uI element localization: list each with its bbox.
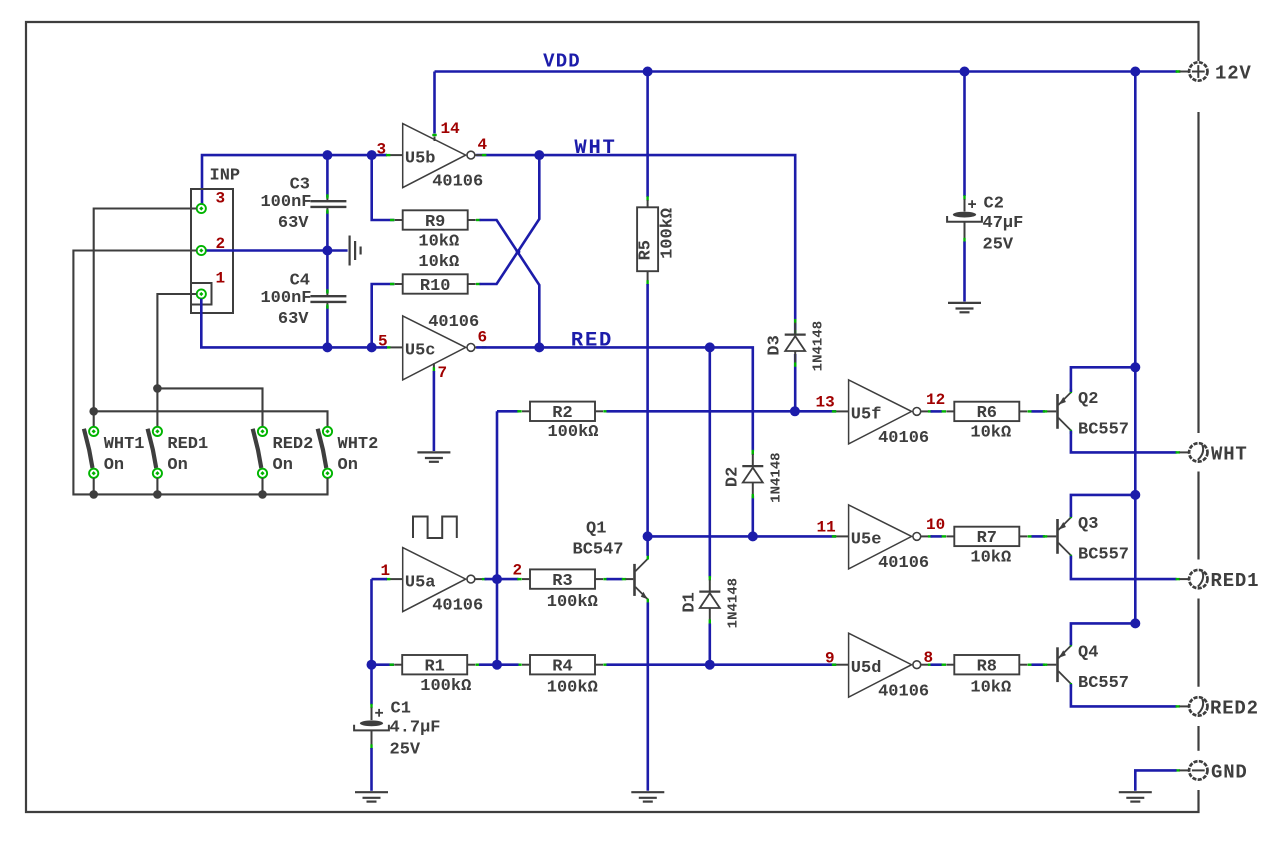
op-amp U5a inverter <box>386 548 486 616</box>
junction RED-D1 <box>705 342 715 352</box>
diode D2 <box>723 451 784 503</box>
wire net13 R2 to U5f <box>607 410 837 413</box>
svg-text:C4: C4 <box>290 272 310 291</box>
junction RED2 bottom <box>258 490 267 499</box>
svg-text:10kΩ: 10kΩ <box>970 679 1011 698</box>
svg-text:On: On <box>104 456 124 475</box>
svg-text:R2: R2 <box>552 404 572 423</box>
svg-text:100kΩ: 100kΩ <box>420 677 471 696</box>
wire RED to D1 <box>708 347 711 577</box>
wire pin3 to U5b input <box>202 155 387 203</box>
svg-text:40106: 40106 <box>432 597 483 616</box>
wire Q3 emitter to VDD rail <box>1071 495 1135 517</box>
svg-text:R8: R8 <box>977 658 997 677</box>
resistor R6 <box>942 402 1032 424</box>
wire R10 to WHT net <box>480 155 540 284</box>
wire WHT net U5b out to D3 <box>476 155 795 334</box>
pin 3 of INP <box>197 190 225 214</box>
svg-text:VDD: VDD <box>543 51 581 73</box>
switch RED2 <box>253 427 314 495</box>
svg-text:2: 2 <box>513 562 523 580</box>
svg-text:4: 4 <box>478 136 488 154</box>
svg-text:U5e: U5e <box>851 531 882 550</box>
op-amp U5d inverter <box>832 633 932 701</box>
wire D2 to net11 <box>751 496 754 537</box>
connector INP <box>191 167 240 314</box>
svg-text:RED1: RED1 <box>167 435 208 454</box>
svg-text:U5f: U5f <box>851 406 882 425</box>
wire R9 to RED net <box>480 220 540 347</box>
wire VDD rail <box>435 70 1178 73</box>
terminal RED2 <box>1176 697 1208 715</box>
wire RED net U5c out to D2 <box>476 347 753 451</box>
terminal 12V <box>1176 62 1208 80</box>
terminal RED1 <box>1176 570 1208 588</box>
wire R1 to C1 <box>370 665 373 705</box>
resistor R4 <box>517 655 607 677</box>
wire C1 to ground <box>370 748 373 791</box>
svg-text:100kΩ: 100kΩ <box>547 423 598 442</box>
junction pin3 rail <box>89 407 98 416</box>
svg-text:40106: 40106 <box>878 682 929 701</box>
wire R3 to Q1 base <box>607 578 623 581</box>
svg-text:3: 3 <box>377 141 387 159</box>
wire Q1 collector <box>646 536 649 555</box>
AC coupling ground <box>350 236 361 266</box>
svg-text:WHT2: WHT2 <box>338 435 379 454</box>
svg-text:10kΩ: 10kΩ <box>970 549 1011 568</box>
svg-text:Q4: Q4 <box>1078 643 1098 662</box>
wire U5b pin14 <box>433 72 436 134</box>
wire pin3 to WHT switches <box>94 209 197 412</box>
svg-text:25V: 25V <box>983 236 1014 255</box>
svg-text:100nF: 100nF <box>260 289 311 308</box>
svg-text:R4: R4 <box>552 658 572 677</box>
wire Q4 emitter to VDD rail <box>1071 623 1135 645</box>
svg-text:RED1: RED1 <box>1211 570 1260 592</box>
wire R4 left <box>497 663 519 666</box>
wire C4 top <box>326 251 329 293</box>
ground U5c pin7 <box>417 452 450 461</box>
svg-text:BC557: BC557 <box>1078 421 1129 440</box>
svg-text:BC557: BC557 <box>1078 674 1129 693</box>
wire to WHT1 switch <box>93 411 95 427</box>
svg-text:40106: 40106 <box>878 429 929 448</box>
junction RED-crosscouple <box>534 342 544 352</box>
diode D1 <box>680 576 741 628</box>
svg-text:On: On <box>338 456 358 475</box>
svg-text:63V: 63V <box>278 310 309 329</box>
svg-text:R7: R7 <box>977 529 997 548</box>
svg-text:RED2: RED2 <box>1210 698 1259 720</box>
wire R2 riser <box>496 411 499 664</box>
pin 1 of INP <box>197 270 225 299</box>
junction rail-Q2 <box>1130 362 1140 372</box>
svg-text:C1: C1 <box>391 700 411 719</box>
wire U5e to R7 <box>931 535 943 538</box>
svg-text:GND: GND <box>1211 762 1248 784</box>
svg-text:25V: 25V <box>390 741 421 760</box>
svg-text:R6: R6 <box>977 404 997 423</box>
ground C2 <box>948 303 981 312</box>
junction net11-Q1 collector <box>643 531 653 541</box>
wire C4 bottom <box>326 306 329 348</box>
svg-text:7: 7 <box>438 364 448 382</box>
ground GND terminal <box>1119 792 1152 801</box>
ground C1 <box>355 792 388 801</box>
wire C3 bottom <box>326 211 329 251</box>
wire pin1 to RED switches <box>157 294 196 427</box>
crossing node <box>516 249 521 254</box>
wire net11 to U5e <box>648 535 836 538</box>
svg-text:WHT: WHT <box>574 137 616 160</box>
junction net9-D1 <box>705 660 715 670</box>
junction net13-D3 <box>790 406 800 416</box>
wire Q3 collector to RED1 terminal <box>1071 556 1177 579</box>
junction net9-R1 <box>367 660 377 670</box>
svg-text:40106: 40106 <box>428 313 479 332</box>
junction WHT-C3 <box>322 150 332 160</box>
wire Q4 collector to RED2 terminal <box>1071 684 1177 706</box>
junction net11-D2 <box>748 531 758 541</box>
svg-text:4.7µF: 4.7µF <box>390 719 441 738</box>
svg-text:On: On <box>273 456 293 475</box>
transistor Q4 <box>1043 642 1129 693</box>
terminal WHT <box>1176 443 1208 461</box>
capacitor C2 <box>947 195 1023 255</box>
svg-text:U5d: U5d <box>851 659 882 678</box>
wire pin2 to AC ground <box>207 249 348 252</box>
wire VDD to C2 <box>963 72 966 197</box>
wire U5c pin7 to ground <box>433 363 435 368</box>
wire R10 riser <box>372 284 395 347</box>
resistor R7 <box>942 527 1032 549</box>
terminal GND <box>1176 761 1208 779</box>
resistor R3 <box>517 569 607 591</box>
svg-text:12: 12 <box>926 391 945 409</box>
svg-text:U5c: U5c <box>405 342 436 361</box>
wire pin2 common rail <box>73 251 327 495</box>
square wave icon <box>413 517 457 539</box>
junction pin1 rail <box>153 384 162 393</box>
junction VDD-rail <box>1130 67 1140 77</box>
wire R9 riser <box>372 155 395 220</box>
wire R1 to R4 <box>479 663 497 666</box>
wire VDD to R5 <box>646 72 649 198</box>
svg-text:R1: R1 <box>424 658 444 677</box>
wire R7 to Q3 <box>1032 535 1046 538</box>
svg-text:1N4148: 1N4148 <box>725 578 741 628</box>
resistor R2 <box>517 402 607 424</box>
wire WHT switch rail <box>94 411 328 427</box>
svg-text:100kΩ: 100kΩ <box>547 593 598 612</box>
svg-text:BC547: BC547 <box>573 541 624 560</box>
ground Q1 emitter <box>631 792 664 801</box>
svg-text:10: 10 <box>926 516 945 534</box>
svg-text:U5b: U5b <box>405 149 436 168</box>
wire D1 to net9 <box>708 624 711 665</box>
junction pin2-C3C4 <box>322 246 332 256</box>
wire U5f to R6 <box>931 410 943 413</box>
svg-text:Q1: Q1 <box>586 520 606 539</box>
wire U5d to R8 <box>931 663 943 666</box>
junction VDD-C2 <box>960 67 970 77</box>
svg-text:100nF: 100nF <box>260 193 311 212</box>
wire C2 to ground <box>963 242 966 302</box>
junction RED1 bottom <box>153 490 162 499</box>
capacitor C1 <box>354 700 440 760</box>
svg-text:63V: 63V <box>278 214 309 233</box>
op-amp U5f inverter <box>832 380 932 448</box>
svg-text:C2: C2 <box>984 195 1004 214</box>
junction WHT-R9 <box>367 150 377 160</box>
diode D3 <box>766 319 827 371</box>
resistor R8 <box>942 655 1032 677</box>
svg-text:6: 6 <box>478 329 488 347</box>
wire U5a input <box>372 578 388 581</box>
svg-text:14: 14 <box>441 120 461 138</box>
svg-text:9: 9 <box>825 650 835 668</box>
wire C3 top <box>326 155 329 197</box>
resistor R10 <box>390 274 480 296</box>
transistor Q2 <box>1043 389 1129 440</box>
wire VDD rail vertical <box>1134 72 1137 624</box>
svg-text:10kΩ: 10kΩ <box>418 253 459 272</box>
junction net9-R2R4 <box>492 660 502 670</box>
wire net9 R4 to U5d <box>607 663 837 666</box>
resistor R9 <box>390 210 480 232</box>
wire to R2 <box>497 410 519 413</box>
junction RED-R10 <box>367 342 377 352</box>
junction VDD-R5 <box>643 67 653 77</box>
svg-text:BC557: BC557 <box>1078 546 1129 565</box>
svg-text:1N4148: 1N4148 <box>811 321 827 371</box>
junction rail-Q3 <box>1130 490 1140 500</box>
transistor Q3 <box>1043 514 1129 565</box>
svg-text:100kΩ: 100kΩ <box>547 679 598 698</box>
switch RED1 <box>148 427 209 495</box>
wire D3 to net13 <box>794 354 797 411</box>
resistor R1 <box>390 655 480 677</box>
pin 2 of INP <box>197 235 225 255</box>
right border segment 12V-WHT <box>1197 112 1199 433</box>
svg-text:D2: D2 <box>723 467 742 487</box>
junction rail-Q4 <box>1130 618 1140 628</box>
wire to R1 <box>372 663 395 666</box>
svg-text:RED: RED <box>571 330 613 353</box>
svg-text:1N4148: 1N4148 <box>768 452 784 502</box>
op-amp U5b inverter <box>386 124 486 192</box>
svg-text:100kΩ: 100kΩ <box>659 208 678 259</box>
svg-text:U5a: U5a <box>405 573 436 592</box>
transistor Q1 <box>573 520 650 604</box>
svg-text:1: 1 <box>381 562 391 580</box>
svg-text:On: On <box>167 456 187 475</box>
svg-text:R5: R5 <box>637 240 656 260</box>
svg-text:Q2: Q2 <box>1078 390 1098 409</box>
svg-text:40106: 40106 <box>432 173 483 192</box>
right border segment WHT-RED1 <box>1197 472 1199 560</box>
right border segment RED1-RED2 <box>1197 599 1199 687</box>
svg-text:3: 3 <box>216 190 226 208</box>
svg-text:D3: D3 <box>766 335 785 355</box>
svg-text:RED2: RED2 <box>273 435 314 454</box>
capacitor C3 <box>260 176 346 234</box>
wire <box>433 371 436 451</box>
svg-text:Q3: Q3 <box>1078 515 1098 534</box>
svg-text:WHT1: WHT1 <box>104 435 145 454</box>
svg-text:11: 11 <box>817 519 836 537</box>
svg-text:WHT: WHT <box>1211 444 1248 466</box>
junction WHT1 bottom <box>89 490 98 499</box>
switch WHT2 <box>318 427 379 495</box>
svg-text:47µF: 47µF <box>983 214 1024 233</box>
wire RED switch rail <box>157 388 262 427</box>
svg-text:10kΩ: 10kΩ <box>970 424 1011 443</box>
svg-text:R10: R10 <box>420 277 451 296</box>
svg-text:C3: C3 <box>290 176 310 195</box>
op-amp U5c inverter <box>386 313 486 380</box>
junction U5a out-R2 <box>492 574 502 584</box>
wire Q1 emitter to ground <box>646 602 649 790</box>
right border segment RED2-GND <box>1197 726 1199 751</box>
resistor R5 <box>637 207 678 271</box>
svg-text:1: 1 <box>216 270 226 288</box>
wire Q2 collector to WHT terminal <box>1071 431 1177 453</box>
svg-text:INP: INP <box>210 167 241 186</box>
wire U5a out to R3 <box>485 578 519 581</box>
wire R5 to Q1 collector node <box>646 284 649 536</box>
wire R8 to Q4 <box>1032 663 1046 666</box>
junction WHT-crosscouple <box>534 150 544 160</box>
svg-text:R3: R3 <box>552 572 572 591</box>
junction RED-C4 <box>322 342 332 352</box>
wire Q2 emitter to VDD rail <box>1071 367 1135 392</box>
switch WHT1 <box>84 427 145 495</box>
svg-text:13: 13 <box>816 394 835 412</box>
wire GND terminal to ground <box>1135 770 1176 790</box>
wire R6 to Q2 <box>1032 410 1046 413</box>
svg-text:12V: 12V <box>1215 63 1252 85</box>
wire U5a input riser <box>370 579 373 665</box>
svg-text:10kΩ: 10kΩ <box>418 232 459 251</box>
svg-text:40106: 40106 <box>878 554 929 573</box>
capacitor C4 <box>260 272 346 330</box>
wire pin1 to U5c input <box>201 299 387 348</box>
svg-text:D1: D1 <box>680 592 699 612</box>
svg-text:R9: R9 <box>425 213 445 232</box>
op-amp U5e inverter <box>832 505 932 573</box>
